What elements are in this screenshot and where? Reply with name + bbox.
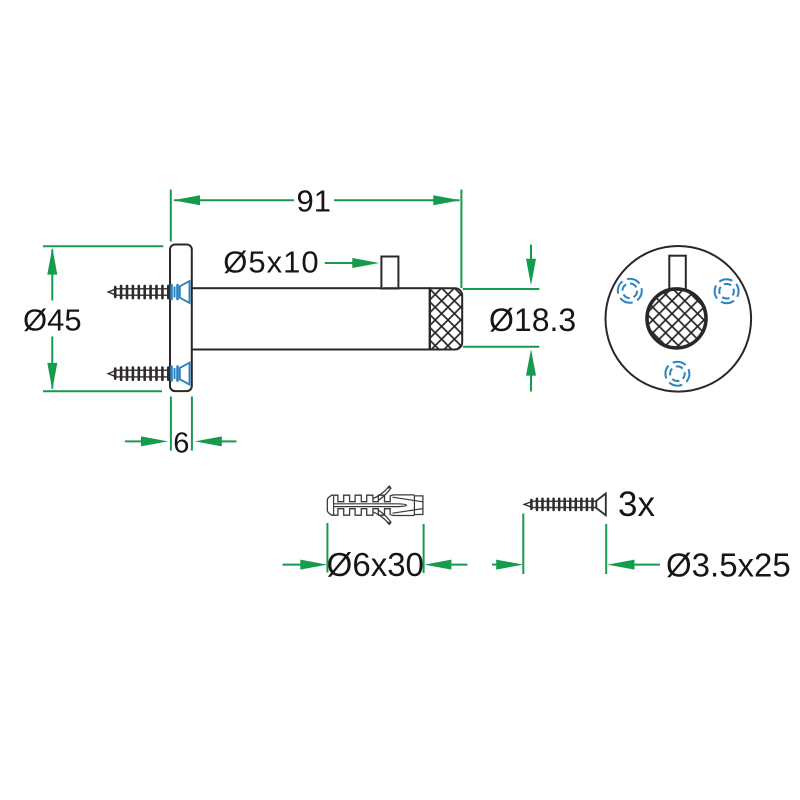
front view: flange outer circle — [606, 246, 752, 392]
svg-text:6: 6 — [173, 427, 189, 459]
front view: hanger pin — [669, 256, 686, 290]
fixing screw (bottom) — [524, 494, 606, 516]
dimension diameter 3.5x25 (screw) — [492, 514, 660, 575]
mounting screw lower (side view) — [108, 363, 189, 385]
svg-text:3x: 3x — [618, 485, 655, 524]
front view: knurled boss circle — [647, 289, 706, 348]
dimension diameter 6x30 (plug) — [283, 523, 468, 573]
front view: screw hole upper-right (dashed) — [715, 279, 739, 303]
hanger pin (side view) — [381, 257, 398, 289]
wall plug anchor (bottom) — [327, 486, 423, 524]
svg-text:Ø3.5x25: Ø3.5x25 — [666, 546, 791, 583]
svg-text:Ø5x10: Ø5x10 — [223, 245, 319, 280]
front view: screw hole bottom (dashed) — [665, 362, 689, 386]
dimension diameter 18.3 — [463, 245, 540, 392]
svg-text:91: 91 — [297, 183, 331, 218]
dimension 6 (flange thickness) — [125, 397, 236, 451]
svg-text:Ø45: Ø45 — [23, 303, 82, 338]
svg-text:Ø6x30: Ø6x30 — [327, 546, 424, 583]
body cylinder (side view) — [191, 288, 430, 349]
dimension diameter 45 — [43, 246, 163, 391]
mounting screw upper (side view) — [108, 281, 189, 303]
knurled tip (side view) — [430, 288, 463, 349]
dimension 91 — [171, 190, 462, 289]
front view: screw hole upper-left (dashed) — [618, 279, 642, 303]
wall flange plate (side view) — [170, 245, 192, 392]
svg-text:Ø18.3: Ø18.3 — [489, 302, 576, 338]
